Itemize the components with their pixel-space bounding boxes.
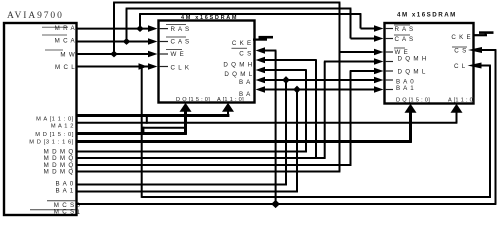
wire WE branch into U3 WE bbox=[340, 51, 378, 53]
wire shared BA0 row U2 to U3 bbox=[262, 79, 377, 81]
pin stubs U2 left bbox=[159, 29, 168, 67]
power tie CKE U3 bbox=[473, 33, 494, 36]
svg-text:C S: C S bbox=[454, 48, 467, 55]
svg-text:M A [1 1 : 0]: M A [1 1 : 0] bbox=[36, 117, 74, 123]
svg-text:M C L: M C L bbox=[55, 64, 76, 71]
svg-text:C S: C S bbox=[239, 51, 252, 58]
svg-text:M W: M W bbox=[60, 52, 75, 59]
wire MDMQ1 riser to U2 DQMH bbox=[315, 60, 317, 158]
wire MDMQ3 row joins WE drop vertical bbox=[77, 171, 341, 173]
svg-text:M R A: M R A bbox=[55, 25, 76, 32]
wire U2 DQML row bbox=[262, 69, 307, 71]
pin label CAS (U2) bbox=[166, 37, 190, 46]
wire RAS branch into U3 RAS bbox=[361, 28, 378, 30]
svg-text:R A S: R A S bbox=[395, 26, 414, 33]
svg-text:C L: C L bbox=[454, 63, 466, 70]
arrow into U2 DQ[15:0] bbox=[180, 103, 192, 112]
pin stubs U3 left bbox=[385, 29, 393, 90]
IC U3 4M x16 SDRAM block (right DRAM) bbox=[385, 23, 474, 104]
pin label MWE (U1) bbox=[45, 50, 76, 59]
wire U3 DQMH row bbox=[324, 61, 377, 63]
arrow into U3 CS bbox=[468, 47, 482, 53]
svg-text:M D M Q: M D M Q bbox=[44, 169, 74, 176]
wire WE net drop to U3 bbox=[339, 3, 341, 172]
svg-text:A [1 1 : 0]: A [1 1 : 0] bbox=[217, 97, 244, 103]
svg-text:R A S: R A S bbox=[171, 26, 190, 33]
wire low rail RAS net bbox=[139, 13, 361, 15]
wire MCLK drop to bottom bbox=[141, 67, 143, 198]
wire CAS net drop to U3 bbox=[350, 9, 352, 39]
wire MRAS riser to low rail bbox=[139, 14, 141, 29]
arrow into U2 DQML bbox=[256, 67, 266, 74]
pin label MCAS (U1) bbox=[42, 35, 76, 45]
arrow into U2 A[11:0] bbox=[222, 103, 234, 112]
wire MDMQ2 row bbox=[77, 164, 352, 166]
wire MDMQ1 row bbox=[77, 157, 326, 159]
arrow into U3 RAS bbox=[374, 25, 384, 32]
wire MWE row U1 to U2 WE bbox=[77, 53, 152, 55]
pin label RAS (U2) bbox=[166, 25, 190, 34]
wire BA1 riser bbox=[296, 90, 298, 193]
pin label WE (U3) bbox=[394, 48, 409, 56]
junction MCLK tee arrow bbox=[139, 63, 148, 70]
svg-text:C K E: C K E bbox=[232, 40, 252, 47]
svg-text:D Q M H: D Q M H bbox=[398, 56, 428, 63]
pin label MCS1 (U1) bbox=[30, 209, 81, 217]
bus riser DQ U3 bbox=[409, 108, 412, 142]
wire MDMQ0 riser to U2 DQML bbox=[305, 70, 307, 152]
svg-text:B A: B A bbox=[239, 79, 251, 86]
wire MDMQ1 riser to U3 DQMH bbox=[324, 62, 326, 159]
arrow into U2 BA0 bbox=[256, 77, 266, 84]
svg-text:M C S: M C S bbox=[54, 209, 75, 216]
arrow into U3 BA1 bbox=[374, 86, 384, 93]
wire U2 DQMH row bbox=[262, 59, 317, 61]
svg-text:AVIA9700: AVIA9700 bbox=[7, 11, 64, 21]
bus MD[31:16] bbox=[77, 140, 412, 143]
wire CS riser U2 bbox=[275, 51, 277, 205]
arrow into U2 RAS bbox=[148, 25, 158, 32]
junction BA1 tee dot bbox=[293, 86, 301, 94]
wire MD15 jog row bbox=[142, 127, 186, 129]
wire MWE riser to top rail bbox=[113, 3, 115, 55]
wire MCLK riser far right bbox=[489, 66, 491, 198]
svg-text:1: 1 bbox=[77, 209, 81, 216]
arrow into U3 DQMH bbox=[374, 58, 384, 65]
IC U2 4M x16 SDRAM block (left DRAM) bbox=[159, 21, 255, 103]
svg-text:W E: W E bbox=[171, 51, 185, 58]
svg-text:M A 1 2: M A 1 2 bbox=[51, 124, 74, 130]
wire top rail WE net bbox=[113, 2, 340, 4]
svg-text:4M x16SDRAM: 4M x16SDRAM bbox=[181, 15, 238, 21]
bus riser A U2 bbox=[227, 107, 229, 116]
arrow into U2 BA1 bbox=[256, 86, 266, 93]
svg-text:4M x16SDRAM: 4M x16SDRAM bbox=[397, 12, 457, 19]
svg-text:A [1 1 : 0]: A [1 1 : 0] bbox=[448, 98, 475, 104]
svg-text:D Q M L: D Q M L bbox=[398, 69, 427, 76]
svg-text:B A 1: B A 1 bbox=[56, 188, 74, 195]
wire MA extension row bbox=[77, 122, 458, 124]
junction MWE tee dot bbox=[110, 51, 118, 58]
wire into U3 CS bbox=[479, 49, 496, 51]
wire MDMQ2 riser to U3 DQML bbox=[350, 71, 352, 166]
arrow into U2 CAS bbox=[148, 38, 158, 45]
arrow into U3 WE bbox=[374, 49, 384, 56]
svg-text:C K E: C K E bbox=[451, 34, 471, 41]
bus MD[15:0] bbox=[77, 132, 187, 135]
svg-text:C L K: C L K bbox=[171, 65, 190, 72]
IC U1 AVIA9700 block bbox=[4, 23, 77, 215]
svg-text:M D M Q: M D M Q bbox=[44, 155, 74, 162]
wire mid rail CAS net bbox=[126, 8, 352, 10]
arrow into U3 DQ[15:0] bbox=[405, 104, 417, 113]
wire U3 DQML row bbox=[350, 70, 377, 72]
wire BA0 riser bbox=[285, 80, 287, 185]
wire MCLK bottom run bbox=[142, 196, 491, 198]
wire MA riser to U3 A bbox=[456, 108, 458, 123]
svg-text:M C A: M C A bbox=[55, 38, 76, 45]
pin label RAS (U3) bbox=[394, 25, 414, 33]
wire MCS0 row bbox=[77, 203, 497, 205]
pin label CS (U2) bbox=[232, 48, 253, 57]
svg-text:M D [3 1 : 1 6]: M D [3 1 : 1 6] bbox=[29, 140, 74, 146]
wire CAS branch into U3 CAS bbox=[351, 38, 378, 40]
wire BA1 row bbox=[77, 191, 298, 193]
svg-text:D Q [1 5 : 0]: D Q [1 5 : 0] bbox=[176, 97, 210, 103]
pin label MRAS (U1) bbox=[42, 25, 76, 32]
svg-text:B A 1: B A 1 bbox=[396, 85, 414, 92]
power tie CKE U2 bbox=[253, 37, 273, 39]
junction MCAS tee dot bbox=[123, 38, 131, 45]
wire MCAS row U1 to U2 CAS bbox=[77, 41, 152, 43]
wire CS riser U3 far right bbox=[495, 50, 497, 204]
junction MRAS tee dot bbox=[136, 25, 144, 32]
pin label CS (U3) bbox=[452, 47, 467, 55]
arrow into U3 CAS bbox=[374, 35, 384, 42]
wire MCLK row U1 to U2 CLK bbox=[77, 66, 152, 68]
wire MDMQ0 row bbox=[77, 151, 307, 153]
bus riser DQ U2 bbox=[184, 107, 187, 134]
junction MCS0 dot bbox=[271, 200, 280, 208]
svg-text:C A S: C A S bbox=[171, 39, 190, 46]
bus MA[11:0] bbox=[77, 114, 230, 117]
arrow into U3 CLK bbox=[468, 63, 482, 69]
arrow into U3 A[11:0] bbox=[451, 104, 463, 113]
svg-text:D Q M L: D Q M L bbox=[224, 71, 253, 78]
arrow into U2 DQMH bbox=[256, 57, 266, 64]
wire BA0 row bbox=[77, 184, 287, 186]
arrow into U2 CS bbox=[256, 47, 266, 54]
wire MD15 jog up bbox=[142, 127, 144, 134]
wire shared BA1 row U2 to U3 bbox=[262, 89, 377, 91]
arrow into U3 DQML bbox=[374, 68, 384, 75]
svg-text:D Q M H: D Q M H bbox=[223, 62, 253, 69]
arrow into U2 CLK bbox=[148, 63, 158, 70]
svg-text:M D [1 5 : 0]: M D [1 5 : 0] bbox=[35, 132, 74, 138]
wire into U3 CLK bbox=[479, 65, 491, 67]
pin label MCS0 (U1) bbox=[47, 201, 81, 209]
junction BA0 tee dot bbox=[282, 76, 290, 84]
arrow into U2 WE bbox=[148, 51, 158, 58]
pin label WE (U2) bbox=[166, 50, 185, 59]
wire MCAS riser to mid rail bbox=[126, 9, 128, 42]
wire MRAS row U1 to U2 RAS bbox=[77, 28, 152, 30]
svg-text:D Q [1 5 : 0]: D Q [1 5 : 0] bbox=[396, 98, 430, 104]
arrow into U3 BA0 bbox=[374, 77, 384, 84]
wire U2 CS row bbox=[262, 50, 276, 52]
pin label CAS (U3) bbox=[394, 35, 414, 43]
svg-text:B A 0: B A 0 bbox=[56, 181, 74, 188]
wire RAS net drop to U3 bbox=[360, 14, 362, 29]
wire MA jog down bbox=[146, 116, 148, 124]
svg-text:C A S: C A S bbox=[395, 36, 414, 43]
